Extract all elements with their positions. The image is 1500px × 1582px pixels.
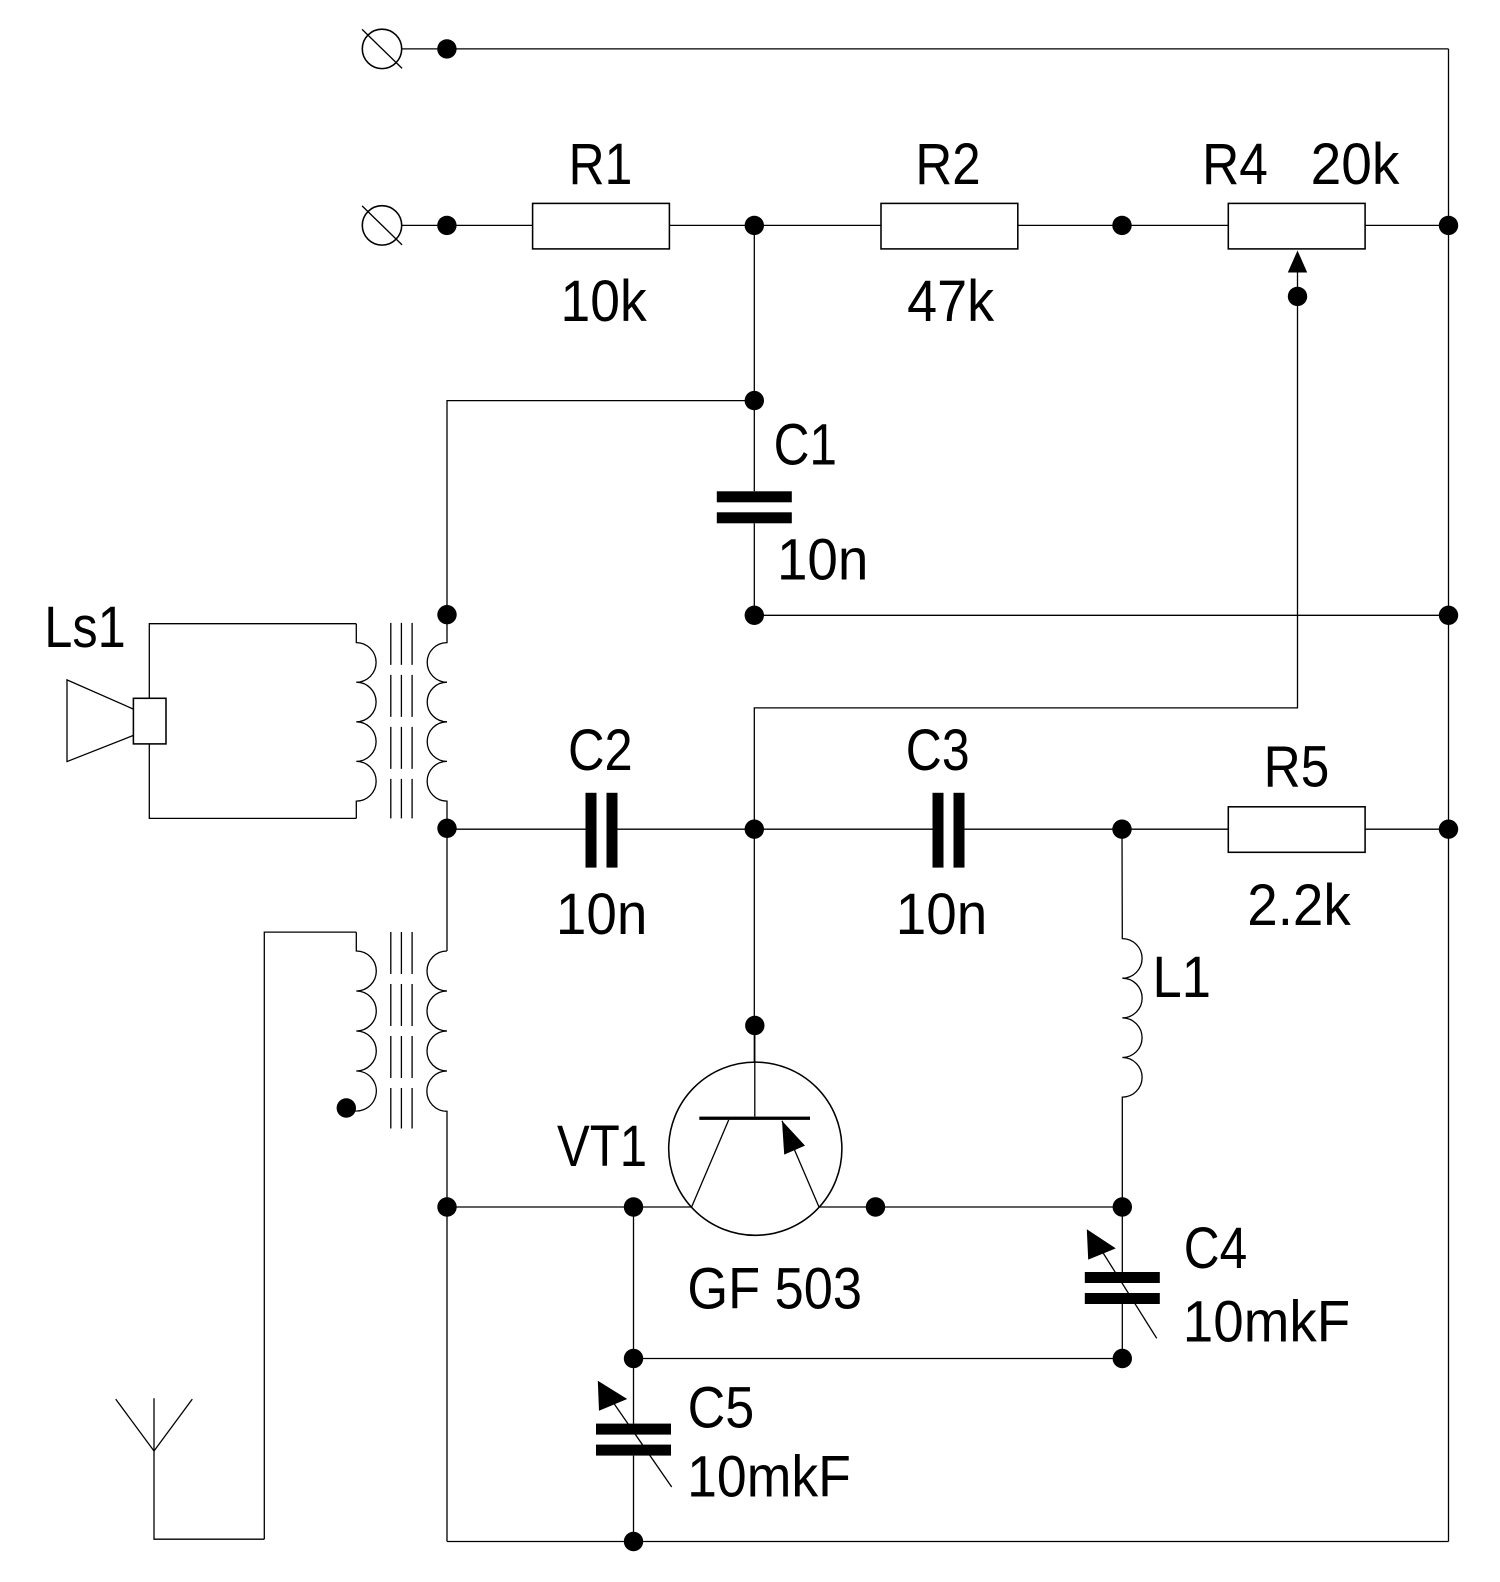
svg-text:Ls1: Ls1 [44,595,126,660]
wire C4 column lower [1121,1304,1123,1359]
capacitor C3 [933,793,965,868]
junction dot top rail [437,39,456,58]
terminal XS2 (lower input) [362,206,402,245]
wire bottom rail [447,1541,1449,1543]
junction dot XS2 wire [437,216,456,235]
wire right rail [1448,49,1450,1542]
junction dot R4 wiper [1288,287,1307,306]
svg-text:R2: R2 [915,132,980,197]
wire emitter row right [819,1206,1122,1208]
wire R2 to R4 [1018,224,1229,226]
R4 wiper arrow [1288,251,1307,273]
junction dot emitter pin [866,1197,885,1216]
svg-text:L1: L1 [1153,945,1211,1010]
transformer T1 primary winding [356,624,376,819]
wire C1 column upper [753,225,755,491]
wire middle row: node to C2 [447,828,586,830]
junction dot C3/R5/L1 node [1112,820,1131,839]
svg-text:10mkF: 10mkF [687,1444,851,1509]
wire C5 column upper [633,1207,635,1424]
junction dot C2/C3 node [745,820,764,839]
junction dot C5 top [624,1349,643,1368]
svg-text:10n: 10n [777,527,869,592]
wire antenna feed to T2 primary [264,932,356,1539]
junction dot T2 primary end [337,1098,356,1117]
svg-text:C5: C5 [688,1375,755,1440]
svg-text:VT1: VT1 [557,1114,647,1179]
potentiometer R4 [1228,203,1365,249]
junction dot C4 bottom [1113,1349,1132,1368]
junction dot VT1 base [745,1016,764,1035]
svg-text:C1: C1 [774,413,837,478]
junction dot R4/right rail [1439,216,1458,235]
wire C1 column lower [753,523,755,615]
wire T1 secondary to T2 secondary [446,828,448,951]
wire C3 to node [965,828,1123,830]
svg-text:20k: 20k [1311,132,1401,197]
junction dot C1 bottom node [745,606,764,625]
wire node to C3 [754,828,932,830]
wire R1 to R2 [669,224,881,226]
junction dot L1/C4 node [1113,1197,1132,1216]
wire C4 column upper [1121,1207,1123,1272]
junction dot C5/bottom rail [624,1532,643,1551]
wire T2 secondary to bottom rail [446,1207,448,1542]
svg-text:2.2k: 2.2k [1247,873,1351,938]
capacitor C1 [717,491,792,523]
junction dot T1 secondary bottom [437,819,456,838]
wire C2 to node [618,828,755,830]
capacitor C2 [586,793,618,868]
svg-text:R1: R1 [569,132,633,197]
wire emitter row left [447,1206,692,1208]
wire C1 bottom to right rail [754,614,1448,616]
svg-text:C3: C3 [906,718,970,783]
wire C1 node to transformer T1 [447,401,754,615]
wire C5 to C4 link [634,1358,1123,1360]
transformer T2 primary winding [346,932,376,1111]
junction dot R5/right rail [1439,820,1458,839]
antenna W1 [116,1398,265,1539]
svg-text:10mkF: 10mkF [1183,1290,1350,1355]
transformer T1 core [391,623,412,819]
transistor VT1 [669,1026,842,1236]
junction dot C1 wire/right rail [1439,606,1458,625]
junction dot T2 secondary/emitter row [437,1197,456,1216]
svg-text:10n: 10n [896,882,988,947]
svg-text:C4: C4 [1184,1216,1247,1281]
wire R4 wiper to C2/C3 node [754,265,1297,829]
resistor R1 [533,203,670,249]
svg-text:10k: 10k [561,269,648,334]
resistor R5 [1228,807,1365,853]
svg-text:R5: R5 [1264,734,1330,799]
resistor R2 [881,203,1018,249]
wire terminal XS2 to R1 [402,224,533,226]
inductor L1 [1122,829,1142,1207]
transformer T1 secondary winding [427,615,447,829]
transformer T2 secondary winding [427,951,447,1207]
speaker Ls1 [67,680,166,762]
terminal XS1 (top input) [362,29,402,68]
wire C5 column lower [633,1456,635,1542]
junction dot T1 secondary top [437,605,456,624]
wire R5 to right rail [1365,828,1448,830]
wire R4 to right rail [1365,224,1448,226]
junction dot C1 top node [745,391,764,410]
wire node to R5 [1122,828,1228,830]
svg-text:GF 503: GF 503 [687,1257,862,1322]
svg-text:10n: 10n [556,882,648,947]
svg-text:C2: C2 [568,718,633,783]
wire base column [753,829,755,1117]
transformer T2 core [391,932,412,1129]
transformer T1 loop to speaker [149,624,356,819]
variable capacitor C4 [1085,1229,1160,1338]
junction dot R2/R4 node [1112,216,1131,235]
variable capacitor C5 [596,1381,672,1487]
svg-text:R4: R4 [1202,132,1268,197]
junction dot emitter/C5 [624,1197,643,1216]
svg-text:47k: 47k [907,269,995,334]
wire top rail [402,48,1449,50]
junction dot R1/R2 node [745,216,764,235]
